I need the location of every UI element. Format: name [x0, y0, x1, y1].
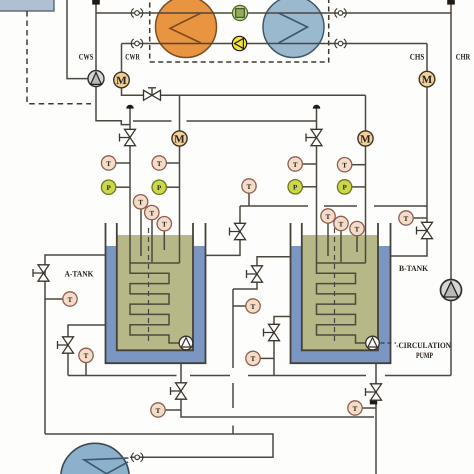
pipe B jacket T sensor tick: [233, 305, 246, 307]
svg-text:CWR: CWR: [125, 52, 140, 62]
pipe CWS riser (square marker to pump): [95, 4, 97, 71]
motor valve M tank B: [358, 131, 373, 146]
pipe CHR riser below pump to return header: [450, 300, 452, 375]
svg-text:CWS: CWS: [79, 52, 94, 62]
motor valve M CHS: [419, 71, 435, 87]
svg-text:B-TANK: B-TANK: [399, 264, 429, 273]
pipe A right jacket fill: [206, 206, 241, 255]
pipe condenser bottom header y=43.5: [122, 43, 428, 45]
tank B inner vessel fill: [302, 235, 379, 351]
tank B inner wall: [302, 223, 378, 350]
pipe CHR riser right: [450, 4, 452, 280]
sensor P b1 with tick: [288, 180, 317, 194]
svg-text:T: T: [106, 160, 111, 168]
pipe CHS manifold T sensor stem: [248, 193, 250, 206]
svg-text:T: T: [293, 161, 298, 169]
svg-text:T: T: [247, 183, 252, 191]
sensor T tank A level 1: [133, 195, 147, 209]
pipe M valve B into tank coil: [365, 146, 367, 263]
valve tank A feed: [120, 129, 136, 145]
pipe marker square CWS: [92, 0, 100, 5]
svg-text:P: P: [157, 184, 162, 192]
svg-text:M: M: [422, 74, 433, 86]
svg-text:T: T: [339, 220, 344, 228]
tank B cooling coil: [317, 263, 366, 343]
tank B outer wall: [291, 223, 391, 363]
svg-text:T: T: [84, 352, 89, 360]
sensor T B lower drain: [246, 351, 260, 365]
svg-text:M: M: [174, 134, 185, 146]
tank A inner vessel fill: [117, 235, 194, 351]
tank A dashed centerline: [148, 228, 150, 344]
pipe marker square CHR: [447, 0, 455, 5]
sensor T tank B level 1: [321, 209, 335, 223]
tank A sensor stems: [141, 209, 164, 262]
flexible joint condenser left top: [131, 9, 142, 18]
sensor T B bottom drain: [348, 401, 362, 415]
svg-text:PUMP: PUMP: [416, 351, 433, 360]
pipe CWR header from M valve: [122, 88, 366, 96]
svg-text:P: P: [106, 184, 111, 192]
sensor P b2 with tick: [337, 180, 365, 194]
flexible joint evaporator right top: [335, 9, 346, 18]
air vent stem A: [129, 109, 131, 130]
pipe feed valve B into tank: [316, 145, 318, 263]
pipe A left jacket drain: [45, 255, 106, 434]
svg-text:T: T: [156, 407, 161, 415]
tank A inner wall: [117, 223, 193, 350]
sensor T tank B level 3: [350, 221, 364, 235]
pipe branch down to M valve A: [179, 95, 181, 131]
tank B sensor stems: [328, 223, 357, 262]
svg-text:T: T: [353, 405, 358, 413]
pipe CWR drop to M valve: [121, 44, 123, 73]
expansion valve circle (yellow): [232, 36, 246, 50]
evaporator zigzag: [279, 13, 308, 43]
svg-text:T: T: [149, 209, 154, 217]
valve B lower jacket drain: [264, 324, 280, 340]
pipe feed valve A into tank: [129, 145, 131, 263]
flexible joint bottom HX: [131, 453, 142, 462]
svg-text:M: M: [360, 134, 371, 146]
sensor T A bottom drain: [151, 403, 165, 417]
pipe CHS manifold y=206 (gaps at tank B feeds): [240, 205, 427, 207]
pipe A jacket T sensor tick: [45, 298, 63, 300]
pipe chilled supply header to HX y=434: [45, 434, 273, 457]
sensor T b2 with tick: [337, 158, 365, 172]
CWS pump: [88, 71, 104, 87]
pipe A lower jacket drain: [68, 325, 106, 376]
svg-text:T: T: [251, 355, 256, 363]
pipe A lower T sensor stem: [85, 363, 87, 376]
pipe branch down to M valve B: [365, 95, 367, 131]
sensor T A lower drain: [79, 348, 93, 362]
sensor T a2 with tick: [152, 156, 180, 170]
evaporator circle (blue): [263, 0, 324, 58]
sensor T a1 with tick: [101, 156, 130, 170]
circulation pump in tank B: [366, 336, 380, 350]
svg-text:T: T: [326, 213, 331, 221]
valve B left jacket drain: [247, 266, 263, 282]
motor valve M CWR: [114, 72, 130, 88]
tank A cooling coil: [130, 263, 180, 343]
pipe B tank bottom drain: [375, 363, 377, 474]
valve B right jacket fill: [417, 222, 433, 238]
sensor T CHS right riser: [399, 211, 413, 225]
sensor P a1 with tick: [101, 180, 130, 194]
sensor T tank A level 3: [157, 217, 171, 231]
valve A left jacket drain: [33, 265, 49, 281]
pipe CWS header y=121 (gap at crossing): [133, 120, 317, 122]
svg-text:-CIRCULATION: -CIRCULATION: [396, 341, 451, 350]
tank B outer jacket fill: [290, 246, 391, 364]
pipe B lower T sensor tick: [260, 357, 274, 359]
bottom heat exchanger circle: [61, 443, 129, 474]
svg-text:T: T: [157, 160, 162, 168]
tank A outer wall: [106, 223, 206, 363]
sensor T A jacket drain: [63, 292, 77, 306]
sensor T tank B level 2: [334, 216, 348, 230]
valve A lower jacket drain: [58, 337, 74, 353]
pipe CWS suction from top edge: [67, 0, 88, 79]
sensor T B jacket drop: [246, 299, 260, 313]
pipe CWS down from pump with jog: [96, 86, 130, 124]
pipe B drain T sensor tick: [362, 407, 376, 409]
svg-text:T: T: [404, 215, 409, 223]
pipe T sensor tick right riser: [413, 217, 427, 219]
svg-text:T: T: [342, 162, 347, 170]
pipe CHR return header y=375.5 (gaps at crossings): [68, 375, 451, 377]
svg-text:T: T: [162, 221, 167, 229]
motor valve M tank A: [172, 131, 187, 146]
pipe B right jacket fill: [391, 206, 428, 256]
pipe B jacket drop line x=233 (gaps at crossings): [232, 289, 234, 434]
svg-text:T: T: [251, 303, 256, 311]
pipe condenser top header y=13: [96, 12, 451, 14]
pipe B left jacket drain upper: [233, 257, 291, 289]
svg-text:P: P: [342, 184, 347, 192]
svg-text:A-TANK: A-TANK: [65, 270, 95, 279]
pipe A tank bottom drain: [181, 363, 374, 417]
svg-text:CHR: CHR: [456, 52, 471, 62]
pipe B lower jacket drain: [274, 317, 291, 376]
pipe marker square B drain: [370, 400, 377, 405]
valve A right jacket fill: [230, 223, 246, 239]
valve CWR header horizontal: [144, 88, 161, 101]
circulation pump in tank A: [179, 336, 193, 350]
sensor T b1 with tick: [288, 157, 317, 171]
pipe CHS drop from evaporator header: [426, 44, 428, 207]
pipe M valve A into tank coil: [179, 146, 181, 263]
CHR circulation pump: [441, 280, 462, 301]
condenser zigzag: [170, 13, 201, 43]
condenser circle (orange): [156, 0, 217, 58]
sensor P a2 with tick: [152, 180, 180, 194]
chiller dashed enclosure: [150, 0, 329, 62]
expansion box top-left: [0, 0, 54, 11]
air vent stem B: [316, 109, 318, 130]
compressor circle (green): [232, 5, 247, 20]
svg-text:P: P: [293, 184, 298, 192]
dashed signal line from box: [27, 11, 91, 104]
svg-text:T: T: [68, 296, 73, 304]
sensor T tank A level 2: [145, 205, 159, 219]
flexible joint evaporator right bottom: [335, 39, 346, 48]
air vent dome B: [313, 105, 321, 109]
flexible joint condenser left bottom: [131, 39, 142, 48]
svg-text:T: T: [138, 199, 143, 207]
dashed leader to pump label: [381, 342, 397, 344]
air vent dome A: [126, 105, 134, 109]
svg-text:CHS: CHS: [410, 52, 425, 62]
tank B dashed centerline: [334, 228, 336, 344]
pipe A drain T sensor tick: [165, 409, 181, 411]
sensor T CHS manifold: [242, 179, 256, 193]
tank A outer jacket fill: [105, 246, 206, 364]
valve tank B feed: [306, 129, 322, 145]
valve A bottom drain: [171, 383, 187, 399]
svg-text:T: T: [355, 225, 360, 233]
svg-text:M: M: [116, 75, 127, 87]
bottom HX zigzag: [84, 458, 129, 474]
valve B bottom drain: [366, 384, 382, 400]
